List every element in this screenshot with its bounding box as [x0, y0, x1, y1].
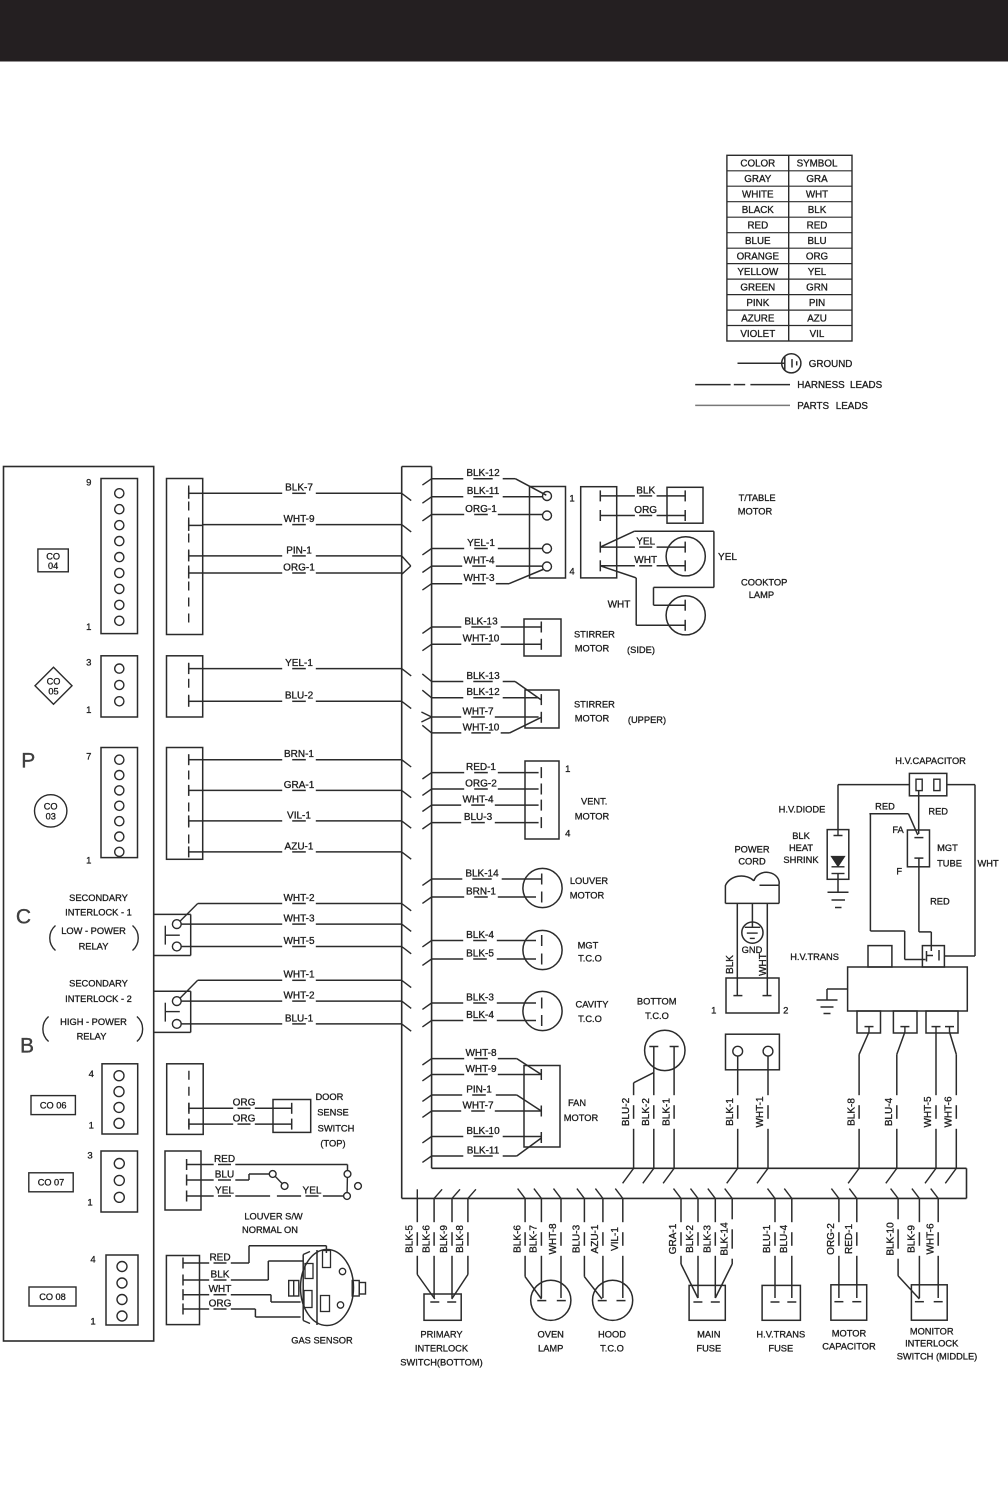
svg-text:1: 1: [90, 1316, 95, 1327]
connector 3-pin (CO 07): [87, 1150, 137, 1212]
svg-text:LAMP: LAMP: [538, 1343, 563, 1353]
svg-text:CO: CO: [44, 802, 58, 812]
svg-text:4: 4: [565, 828, 570, 839]
label CO 07: [29, 1173, 73, 1192]
svg-text:BLK-4: BLK-4: [466, 1010, 494, 1021]
svg-text:BLK-5: BLK-5: [405, 1225, 416, 1253]
stirrer motor (side): [524, 619, 655, 656]
svg-text:(TOP): (TOP): [320, 1139, 345, 1149]
svg-text:WHT-3: WHT-3: [283, 914, 315, 925]
svg-text:2: 2: [783, 1005, 788, 1016]
wire BLK-4 cavity tco: [432, 1020, 464, 1022]
power cord plug: [725, 872, 779, 903]
header bar: [0, 0, 1008, 62]
svg-text:PINK: PINK: [746, 298, 769, 309]
svg-text:SWITCH(BOTTOM): SWITCH(BOTTOM): [400, 1357, 482, 1367]
wire BLK-10 fan: [432, 1136, 464, 1138]
wire BLK-1 bottom tco: [673, 1047, 675, 1096]
wire BRN-1 louver motor: [432, 896, 465, 898]
wire WHT-2 relay2: [181, 1000, 282, 1002]
svg-text:BLU: BLU: [807, 236, 826, 247]
bottom t.c.o caption: [637, 996, 677, 1020]
svg-text:CO 07: CO 07: [38, 1178, 65, 1188]
wire BLK-8: [452, 1198, 468, 1299]
svg-text:BLUE: BLUE: [745, 236, 771, 247]
svg-text:RED: RED: [875, 801, 895, 811]
svg-text:MOTOR: MOTOR: [564, 1113, 599, 1123]
svg-text:VIOLET: VIOLET: [740, 329, 775, 340]
svg-text:GREEN: GREEN: [740, 282, 775, 293]
svg-text:RELAY: RELAY: [79, 941, 109, 951]
connector 4-pin (CO 08): [90, 1254, 138, 1327]
svg-text:BLU-1: BLU-1: [285, 1013, 314, 1024]
svg-text:BLU-4: BLU-4: [884, 1097, 895, 1126]
svg-text:SECONDARY: SECONDARY: [69, 979, 128, 989]
svg-text:VIL: VIL: [810, 329, 825, 340]
wire RED louver: [201, 1154, 348, 1171]
wire WHT-6 transformer: [944, 1032, 957, 1168]
t/table motor: [667, 487, 776, 523]
svg-text:VIL-1: VIL-1: [610, 1227, 621, 1251]
svg-text:PRIMARY: PRIMARY: [420, 1329, 462, 1339]
svg-text:WHT: WHT: [634, 555, 657, 566]
wire WHT-1 relay2: [198, 979, 283, 981]
vent motor: [525, 761, 609, 839]
wire WHT-10 stirrer side: [432, 643, 462, 645]
svg-text:H.V.DIODE: H.V.DIODE: [779, 804, 826, 814]
svg-text:BLU-3: BLU-3: [572, 1224, 583, 1253]
control panel enclosure box: [4, 467, 154, 1342]
svg-text:WHT-8: WHT-8: [548, 1223, 559, 1255]
main fuse: [689, 1285, 725, 1353]
svg-text:LEADS: LEADS: [836, 401, 869, 412]
svg-text:CO 08: CO 08: [39, 1292, 66, 1302]
svg-text:FUSE: FUSE: [768, 1343, 793, 1353]
wire BLK-14 louver motor: [432, 878, 463, 880]
harness trunk duct: [402, 467, 967, 1199]
svg-text:MOTOR: MOTOR: [575, 643, 610, 653]
fan motor: [524, 1066, 598, 1148]
svg-text:ORANGE: ORANGE: [737, 251, 780, 262]
h.v.trans fuse: [756, 1285, 805, 1353]
wire BLK-8 transformer: [846, 1032, 869, 1168]
svg-text:(UPPER): (UPPER): [628, 715, 666, 725]
svg-text:9: 9: [86, 477, 91, 488]
svg-text:ORG: ORG: [233, 1114, 256, 1125]
svg-text:RED-1: RED-1: [466, 762, 496, 773]
transformer ground: [817, 989, 848, 1014]
svg-text:RED: RED: [928, 807, 948, 817]
h.v.capacitor: [909, 773, 946, 795]
svg-text:1: 1: [86, 855, 91, 866]
svg-text:MOTOR: MOTOR: [832, 1328, 867, 1338]
svg-text:CORD: CORD: [738, 857, 766, 867]
label WHT vertical: [607, 597, 631, 611]
wire YEL louver 2: [277, 1195, 301, 1197]
svg-text:BLK-11: BLK-11: [467, 486, 500, 497]
svg-text:WHT-4: WHT-4: [462, 795, 494, 806]
wire BLK-1 primary: [737, 1056, 739, 1095]
wire RED-1 vent: [432, 772, 465, 774]
svg-text:BLK-10: BLK-10: [466, 1126, 500, 1137]
svg-text:BLK-3: BLK-3: [703, 1225, 714, 1253]
label CO 06: [31, 1096, 75, 1115]
svg-text:BLK-12: BLK-12: [466, 687, 500, 698]
wire BLU-3 vent: [432, 822, 462, 824]
svg-text:YEL-1: YEL-1: [467, 538, 495, 549]
svg-text:1: 1: [86, 705, 91, 716]
svg-text:HIGH - POWER: HIGH - POWER: [60, 1017, 127, 1027]
harness leads legend: [695, 380, 882, 391]
monitor interlock switch (middle): [897, 1285, 978, 1362]
label CO 08: [29, 1287, 76, 1306]
bottom t.c.o: [645, 1030, 685, 1070]
svg-text:P: P: [21, 750, 35, 773]
plug connector 4-pin: [581, 487, 617, 578]
svg-text:3: 3: [86, 657, 91, 668]
wire BLK-5: [405, 1198, 435, 1299]
svg-text:BLU-2: BLU-2: [621, 1097, 632, 1126]
svg-text:WHT-2: WHT-2: [283, 893, 315, 904]
svg-text:HEAT: HEAT: [789, 843, 813, 853]
svg-text:GRN: GRN: [806, 282, 828, 293]
svg-text:SYMBOL: SYMBOL: [797, 159, 838, 170]
wire BLK-7: [203, 492, 283, 494]
svg-text:H.V.TRANS: H.V.TRANS: [756, 1329, 805, 1339]
wire BLU-2 bottom tco: [621, 1047, 654, 1169]
svg-text:LEADS: LEADS: [850, 380, 883, 391]
transformer tab 1: [857, 1011, 881, 1033]
cavity t.c.o: [523, 991, 609, 1030]
svg-text:CO 06: CO 06: [40, 1100, 67, 1110]
svg-text:BLK: BLK: [792, 831, 810, 841]
svg-text:BLK-2: BLK-2: [641, 1098, 652, 1126]
svg-text:RELAY: RELAY: [77, 1032, 107, 1042]
svg-text:BLK-3: BLK-3: [466, 992, 494, 1003]
svg-text:BLK-9: BLK-9: [439, 1225, 450, 1253]
wire WHT-3 to pin connector: [432, 570, 543, 585]
power cord caption: [734, 844, 769, 866]
svg-text:GROUND: GROUND: [809, 359, 853, 370]
svg-text:GRA-1: GRA-1: [668, 1223, 679, 1254]
svg-text:RED: RED: [747, 221, 768, 232]
svg-text:MAIN: MAIN: [697, 1329, 720, 1339]
svg-text:BLK-14: BLK-14: [719, 1222, 730, 1256]
wire YEL cooktop lamp: [600, 531, 714, 605]
svg-text:WHT-4: WHT-4: [463, 556, 495, 567]
svg-text:WHT-10: WHT-10: [463, 634, 500, 645]
svg-text:RED: RED: [209, 1252, 230, 1263]
relay 2 text block: [43, 979, 143, 1042]
louver switch contacts: [269, 1171, 361, 1200]
svg-text:BLU-2: BLU-2: [285, 691, 314, 702]
transformer tab 2: [893, 1011, 917, 1033]
diode ground: [828, 892, 849, 907]
svg-text:MOTOR: MOTOR: [575, 713, 610, 723]
wire WHT-5 relay1: [181, 946, 282, 948]
svg-text:BLU-3: BLU-3: [464, 812, 493, 823]
wire F filament (RED): [919, 858, 950, 951]
wire ORG-2 bottom: [838, 1198, 840, 1222]
power cord terminal box: [711, 978, 788, 1016]
wire BLU-4 transformer: [884, 1032, 905, 1168]
svg-text:SHRINK: SHRINK: [783, 855, 819, 865]
svg-text:LAMP: LAMP: [749, 590, 774, 600]
trunk top edge entry marks: [623, 1168, 957, 1183]
svg-text:WHT-1: WHT-1: [755, 1096, 766, 1128]
svg-text:ORG: ORG: [806, 251, 828, 262]
wire ORG-1 to pin connector: [432, 514, 465, 516]
svg-text:FAN: FAN: [568, 1098, 586, 1108]
mgt tube: [907, 830, 961, 868]
svg-text:MGT: MGT: [578, 940, 599, 950]
svg-text:PIN-1: PIN-1: [286, 545, 312, 556]
svg-text:SWITCH (MIDDLE): SWITCH (MIDDLE): [897, 1351, 978, 1361]
svg-text:WHT-6: WHT-6: [944, 1096, 955, 1128]
svg-text:LOUVER S/W: LOUVER S/W: [244, 1211, 303, 1221]
svg-text:BRN-1: BRN-1: [466, 886, 496, 897]
wire AZU-1 left: [203, 851, 283, 853]
svg-text:VENT.: VENT.: [581, 796, 607, 806]
wire BLK-11 to pin connector: [432, 496, 464, 498]
motor capacitor: [822, 1285, 876, 1352]
svg-text:05: 05: [48, 686, 58, 696]
svg-text:AZURE: AZURE: [741, 313, 775, 324]
wire BLK-3 cavity tco: [432, 1002, 464, 1004]
svg-text:PIN-1: PIN-1: [466, 1084, 492, 1095]
svg-text:YEL: YEL: [718, 552, 737, 563]
wire WHT gas sensor: [200, 1284, 301, 1302]
svg-text:VIL-1: VIL-1: [287, 810, 311, 821]
wire YEL-1 left: [203, 668, 283, 670]
svg-text:RED-1: RED-1: [844, 1224, 855, 1254]
svg-text:1: 1: [86, 622, 91, 633]
svg-text:BLACK: BLACK: [742, 205, 775, 216]
cooktop lamp 2: [666, 596, 705, 635]
svg-text:BLK-7: BLK-7: [285, 483, 313, 494]
svg-text:WHT-6: WHT-6: [925, 1223, 936, 1255]
wire BLK-9 bottom: [918, 1198, 920, 1222]
svg-text:GAS SENSOR: GAS SENSOR: [291, 1335, 353, 1345]
wire VIL-1 hood tco: [622, 1198, 624, 1222]
svg-text:FA: FA: [892, 825, 904, 835]
wire WHT-9: [203, 524, 283, 526]
wire BLK-3: [714, 1198, 716, 1222]
svg-text:1: 1: [87, 1197, 92, 1208]
svg-text:YEL: YEL: [636, 537, 655, 548]
wire GRA-1: [668, 1198, 698, 1298]
svg-text:MOTOR: MOTOR: [738, 506, 773, 516]
wire BLK-5 mgt tco: [432, 958, 464, 960]
svg-text:BLK-5: BLK-5: [466, 948, 494, 959]
svg-text:ORG: ORG: [233, 1098, 256, 1109]
wire PIN-1: [203, 555, 283, 557]
svg-text:WHT: WHT: [758, 953, 769, 976]
svg-text:SWITCH: SWITCH: [318, 1123, 355, 1133]
svg-text:1: 1: [711, 1005, 716, 1016]
label CO 05 diamond: [35, 667, 72, 704]
louver motor: [523, 868, 609, 907]
wire BLK-9: [451, 1198, 453, 1222]
svg-text:WHT-7: WHT-7: [462, 1100, 494, 1111]
svg-text:RED: RED: [214, 1154, 235, 1165]
wire YEL-1 to pin connector: [432, 548, 465, 550]
svg-text:SENSE: SENSE: [317, 1108, 349, 1118]
svg-text:CO: CO: [47, 677, 61, 687]
connector 4-pin (CO 06): [89, 1064, 138, 1134]
svg-text:LOUVER: LOUVER: [570, 876, 609, 886]
svg-text:FUSE: FUSE: [696, 1343, 721, 1353]
wire PIN-1 fan: [432, 1084, 542, 1111]
svg-text:GRA-1: GRA-1: [284, 780, 315, 791]
harness connector box 2 (dashed): [167, 656, 203, 717]
wire BLK-2 bottom tco: [653, 1073, 655, 1096]
cooktop lamp caption: [741, 578, 787, 601]
svg-text:DOOR: DOOR: [315, 1092, 343, 1102]
wire WHT-4 to pin connector: [432, 565, 463, 567]
svg-text:H.V.TRANS: H.V.TRANS: [790, 952, 839, 962]
wire ORG t/table: [600, 515, 635, 517]
svg-text:B: B: [20, 1035, 34, 1058]
hood t.c.o: [593, 1280, 633, 1353]
hv transformer body: [848, 946, 968, 1011]
svg-text:ORG-1: ORG-1: [465, 504, 497, 515]
svg-text:H.V.CAPACITOR: H.V.CAPACITOR: [895, 756, 966, 766]
svg-text:WHT: WHT: [978, 858, 999, 868]
trunk right edge exit marks: [421, 479, 431, 1163]
svg-text:HARNESS: HARNESS: [797, 380, 845, 391]
svg-text:MOTOR: MOTOR: [570, 891, 605, 901]
wire WHT-7 fan: [432, 1110, 462, 1112]
svg-text:T.C.O: T.C.O: [578, 954, 602, 964]
wire BLK-13 stirrer side: [432, 626, 462, 628]
svg-text:WHT-3: WHT-3: [463, 573, 495, 584]
svg-text:C: C: [16, 906, 31, 929]
wire WHT-8 fan: [432, 1048, 542, 1075]
svg-text:PARTS: PARTS: [797, 401, 829, 412]
wire ORG-1 left: [203, 572, 283, 574]
svg-text:YEL: YEL: [303, 1185, 322, 1196]
svg-text:7: 7: [86, 751, 91, 762]
svg-text:BLK-1: BLK-1: [661, 1098, 672, 1126]
gas sensor side tabs: [289, 1281, 366, 1297]
svg-text:1: 1: [565, 764, 570, 775]
relay 1 text block: [50, 893, 138, 952]
svg-text:T.C.O: T.C.O: [645, 1011, 669, 1021]
label YEL vertical: [716, 549, 738, 563]
wire BLK-12 to pin connector: [432, 468, 547, 495]
wire RED-1 bottom: [856, 1198, 858, 1222]
svg-text:AZU: AZU: [807, 313, 827, 324]
svg-text:WHT-2: WHT-2: [283, 991, 315, 1002]
wire ORG gas sensor: [200, 1298, 301, 1317]
secondary interlock relay 1 (low power): [154, 904, 198, 956]
wire WHT cooktop lamp: [600, 555, 685, 625]
svg-text:AZU-1: AZU-1: [590, 1224, 601, 1253]
svg-text:PIN: PIN: [809, 298, 825, 309]
svg-text:STIRRER: STIRRER: [574, 629, 615, 639]
svg-text:RED: RED: [807, 221, 828, 232]
svg-text:YEL: YEL: [215, 1185, 234, 1196]
svg-text:BLK: BLK: [636, 485, 655, 496]
color-symbol legend table: [727, 155, 852, 341]
svg-text:BLK-4: BLK-4: [466, 930, 494, 941]
svg-text:COOKTOP: COOKTOP: [741, 578, 787, 588]
svg-text:HOOD: HOOD: [598, 1329, 626, 1339]
svg-text:GRA: GRA: [806, 174, 828, 185]
svg-text:BLK-13: BLK-13: [466, 671, 500, 682]
svg-text:CO: CO: [46, 551, 60, 561]
stirrer motor (upper): [525, 690, 666, 728]
wire BRN-1 left: [203, 759, 283, 761]
svg-text:4: 4: [569, 566, 574, 577]
wire capacitor to diode: [838, 785, 909, 830]
svg-text:INTERLOCK: INTERLOCK: [415, 1343, 469, 1353]
svg-text:ORG: ORG: [209, 1298, 232, 1309]
svg-text:WHT-8: WHT-8: [465, 1048, 497, 1059]
wire BLK-10 bottom: [885, 1198, 919, 1299]
svg-text:BLK-9: BLK-9: [907, 1225, 918, 1253]
wire VIL-1 left: [203, 820, 283, 822]
svg-text:BLU: BLU: [215, 1169, 234, 1180]
svg-text:BLK-8: BLK-8: [455, 1225, 466, 1253]
svg-text:04: 04: [48, 561, 58, 571]
svg-text:F: F: [896, 866, 902, 876]
wire BLK-6 oven lamp: [512, 1198, 541, 1299]
wire YEL louver 1: [201, 1195, 214, 1197]
svg-text:MGT: MGT: [937, 843, 958, 853]
oven lamp: [531, 1280, 571, 1353]
wire BLU-3 hood tco: [572, 1198, 602, 1299]
trunk bottom edge exit marks: [417, 1189, 938, 1199]
connector 3-pin (CO 05): [86, 656, 137, 717]
ground symbol legend: [738, 354, 853, 373]
svg-text:ORG-1: ORG-1: [283, 562, 315, 573]
svg-text:INTERLOCK - 1: INTERLOCK - 1: [65, 908, 132, 918]
svg-text:T.C.O: T.C.O: [578, 1014, 602, 1024]
svg-text:MOTOR: MOTOR: [575, 812, 610, 822]
secondary interlock relay 2 (high power): [154, 980, 198, 1032]
svg-text:NORMAL ON: NORMAL ON: [242, 1225, 298, 1235]
svg-text:(SIDE): (SIDE): [627, 645, 655, 655]
harness connector box 1 (dashed): [167, 479, 203, 635]
svg-text:WHT: WHT: [209, 1284, 232, 1295]
hv trans primary connector box: [726, 1034, 780, 1070]
svg-text:CAPACITOR: CAPACITOR: [822, 1341, 876, 1351]
svg-text:4: 4: [90, 1254, 95, 1265]
wire WHT-3 relay1: [181, 923, 282, 925]
svg-text:1: 1: [89, 1121, 94, 1132]
svg-text:STIRRER: STIRRER: [574, 699, 615, 709]
wire ORG to door switch 2: [203, 1123, 233, 1125]
trunk left edge entry marks: [402, 493, 412, 1031]
gas sensor body: [301, 1250, 354, 1326]
svg-text:BLK-13: BLK-13: [464, 616, 498, 627]
svg-text:03: 03: [46, 811, 56, 821]
svg-text:WHT-10: WHT-10: [463, 722, 500, 733]
mgt t.c.o: [523, 930, 602, 969]
svg-text:BLK-11: BLK-11: [467, 1145, 500, 1156]
wire BLK-11 fan: [432, 1138, 542, 1156]
wire BLK gas sensor: [200, 1261, 304, 1280]
wire capacitor to mgt (RED): [919, 791, 949, 834]
wire BLK t/table: [600, 495, 635, 497]
svg-text:GRAY: GRAY: [744, 174, 772, 185]
svg-text:BLK-7: BLK-7: [529, 1225, 540, 1253]
wire BLK-6: [433, 1198, 435, 1222]
h.v.diode caption: [779, 804, 826, 865]
svg-text:SECONDARY: SECONDARY: [69, 893, 128, 903]
